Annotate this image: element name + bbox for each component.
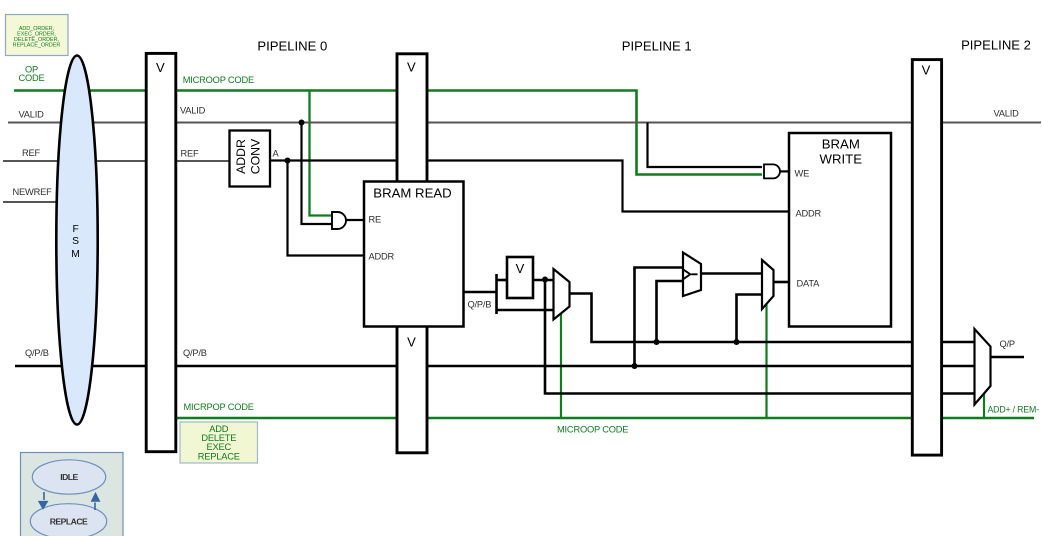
svg-text:REF: REF bbox=[22, 148, 41, 158]
svg-text:REPLACE: REPLACE bbox=[198, 451, 240, 461]
svg-text:ADDR: ADDR bbox=[369, 251, 395, 261]
svg-text:REPLACE_ORDER: REPLACE_ORDER bbox=[13, 43, 61, 49]
svg-text:V: V bbox=[156, 60, 165, 75]
svg-text:MICRPOP CODE: MICRPOP CODE bbox=[184, 402, 254, 412]
svg-text:Q/P/B: Q/P/B bbox=[25, 348, 49, 358]
svg-text:PIPELINE 0: PIPELINE 0 bbox=[257, 39, 327, 54]
svg-text:MICROOP CODE: MICROOP CODE bbox=[557, 424, 628, 434]
svg-text:M: M bbox=[71, 249, 80, 260]
svg-text:REF: REF bbox=[181, 148, 200, 158]
svg-text:NEWREF: NEWREF bbox=[13, 187, 53, 197]
svg-text:VALID: VALID bbox=[19, 110, 45, 120]
svg-text:WE: WE bbox=[795, 168, 810, 178]
svg-text:V: V bbox=[922, 63, 931, 78]
svg-text:VALID: VALID bbox=[180, 106, 206, 116]
svg-text:PIPELINE 2: PIPELINE 2 bbox=[961, 38, 1031, 53]
svg-text:S: S bbox=[72, 236, 79, 247]
svg-text:REPLACE: REPLACE bbox=[50, 517, 88, 527]
svg-text:V: V bbox=[516, 261, 525, 276]
svg-text:ADD+ / REM-: ADD+ / REM- bbox=[988, 405, 1040, 415]
svg-text:BRAM READ: BRAM READ bbox=[373, 186, 451, 201]
svg-text:ADDR: ADDR bbox=[234, 139, 248, 174]
svg-text:CONV: CONV bbox=[248, 138, 262, 174]
svg-text:MICROOP CODE: MICROOP CODE bbox=[183, 75, 254, 85]
svg-text:Q/P/B: Q/P/B bbox=[183, 348, 207, 358]
svg-text:A: A bbox=[273, 149, 280, 159]
svg-text:BRAM: BRAM bbox=[822, 137, 860, 152]
svg-text:ADDR: ADDR bbox=[796, 209, 822, 219]
svg-text:WRITE: WRITE bbox=[820, 151, 863, 166]
svg-text:IDLE: IDLE bbox=[60, 472, 78, 482]
svg-text:F: F bbox=[72, 224, 78, 235]
svg-text:Q/P: Q/P bbox=[1000, 339, 1015, 349]
svg-text:CODE: CODE bbox=[18, 73, 44, 83]
svg-text:RE: RE bbox=[369, 214, 382, 224]
svg-text:Q/P/B: Q/P/B bbox=[468, 300, 492, 310]
svg-text:V: V bbox=[407, 60, 416, 75]
svg-text:DATA: DATA bbox=[797, 278, 821, 288]
svg-text:V: V bbox=[407, 335, 416, 350]
svg-text:PIPELINE 1: PIPELINE 1 bbox=[622, 39, 692, 54]
svg-text:VALID: VALID bbox=[994, 109, 1020, 119]
